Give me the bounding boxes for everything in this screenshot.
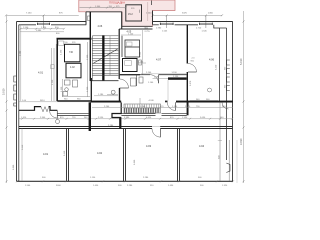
corridor dim line bbox=[92, 107, 233, 109]
svg-text:1.180: 1.180 bbox=[98, 94, 104, 96]
svg-text:3.030: 3.030 bbox=[239, 138, 243, 145]
svg-text:2.710: 2.710 bbox=[196, 28, 202, 30]
svg-text:2.550: 2.550 bbox=[98, 117, 104, 119]
bottom rooms top wall bbox=[19, 127, 233, 129]
pink block bottom walls bbox=[122, 25, 153, 27]
door at stair bottom right bbox=[120, 79, 129, 88]
svg-text:1.540: 1.540 bbox=[25, 185, 31, 187]
svg-text:900: 900 bbox=[225, 85, 227, 88]
svg-text:1.120: 1.120 bbox=[128, 33, 134, 35]
svg-text:2.280: 2.280 bbox=[143, 177, 149, 179]
window right 1 (x158.8-174.6) bbox=[160, 23, 173, 25]
svg-text:2.580: 2.580 bbox=[140, 51, 142, 57]
highlighted unit pink area bbox=[79, 0, 175, 26]
landing line bbox=[92, 74, 118, 76]
svg-text:5.880: 5.880 bbox=[36, 30, 42, 32]
elevator shaft right of stairs bbox=[123, 59, 138, 72]
wall right segment bbox=[165, 101, 168, 103]
svg-text:1.190: 1.190 bbox=[61, 86, 63, 92]
window left (x36-51) bbox=[38, 23, 50, 25]
fixtures below shaft bbox=[63, 80, 78, 96]
svg-text:4.03: 4.03 bbox=[146, 144, 152, 148]
inner right line 2 bbox=[226, 28, 228, 160]
bottom dim texts below line bbox=[25, 185, 228, 187]
stair left wall bbox=[89, 12, 91, 81]
left middle walls with door bbox=[19, 107, 57, 111]
svg-text:5.010: 5.010 bbox=[239, 58, 243, 65]
top wall right segment outer bbox=[153, 21, 233, 23]
door arc lower elevator wall bbox=[150, 75, 159, 84]
chain ticks bbox=[20, 28, 234, 120]
wall left segment bbox=[91, 101, 122, 103]
svg-text:1.130: 1.130 bbox=[41, 27, 47, 29]
wall room4.01 right bbox=[56, 39, 58, 101]
door arc right corridor bbox=[167, 102, 175, 110]
top wall left inner bbox=[19, 24, 36, 26]
room 4.06 under pink band bbox=[86, 12, 122, 29]
svg-text:2.280: 2.280 bbox=[127, 185, 133, 187]
top wall right inner bbox=[153, 24, 159, 26]
svg-text:4.06: 4.06 bbox=[209, 57, 215, 61]
inner right line 1 bbox=[219, 28, 221, 102]
svg-text:900: 900 bbox=[225, 67, 227, 70]
flight divide line bbox=[109, 36, 111, 75]
room 4.01 inner face line bbox=[20, 25, 22, 101]
building outer walls bbox=[17, 22, 234, 182]
svg-text:5.010: 5.010 bbox=[2, 88, 6, 95]
svg-text:4.04: 4.04 bbox=[199, 144, 205, 148]
svg-text:1.240: 1.240 bbox=[146, 13, 152, 15]
svg-text:5.050: 5.050 bbox=[200, 117, 206, 119]
svg-text:2.260: 2.260 bbox=[104, 106, 110, 108]
svg-text:4.610: 4.610 bbox=[146, 117, 152, 119]
interior wall chunk room 4.07 bbox=[153, 78, 169, 80]
svg-text:3.030: 3.030 bbox=[13, 164, 15, 170]
svg-text:ПЛОЩАДКА: ПЛОЩАДКА bbox=[109, 1, 125, 5]
svg-text:1.450: 1.450 bbox=[93, 185, 99, 187]
svg-text:1.980: 1.980 bbox=[156, 28, 162, 30]
svg-text:4.240: 4.240 bbox=[149, 100, 155, 102]
stair bottom bbox=[90, 80, 118, 82]
svg-text:2.280: 2.280 bbox=[154, 77, 160, 79]
pink unit right wall bbox=[152, 11, 154, 25]
bottom wall bbox=[17, 180, 234, 182]
svg-text:2.190: 2.190 bbox=[61, 49, 63, 55]
svg-text:2.340: 2.340 bbox=[40, 117, 46, 119]
svg-text:1.160: 1.160 bbox=[148, 82, 154, 84]
svg-text:2.390: 2.390 bbox=[87, 54, 89, 60]
svg-text:1.160: 1.160 bbox=[172, 106, 178, 108]
svg-text:2.070: 2.070 bbox=[190, 80, 192, 86]
svg-text:1.545: 1.545 bbox=[162, 30, 168, 32]
treads bbox=[92, 36, 118, 74]
svg-text:1.300: 1.300 bbox=[95, 6, 101, 8]
bottom dim ticks bbox=[16, 180, 234, 182]
bottom dim texts above line bbox=[42, 177, 202, 179]
svg-text:4.01: 4.01 bbox=[38, 71, 44, 75]
vertical wall x90.7 bbox=[90, 78, 92, 103]
wall vertical x187 below corridor bbox=[187, 102, 189, 115]
svg-text:1.320: 1.320 bbox=[222, 185, 228, 187]
door arc right end corridor bbox=[222, 103, 229, 110]
svg-text:1.430: 1.430 bbox=[168, 185, 174, 187]
left wall inner bbox=[18, 25, 20, 182]
svg-text:1.930: 1.930 bbox=[182, 117, 188, 119]
hatched band entrance steps bbox=[124, 98, 161, 113]
svg-text:15.2: 15.2 bbox=[128, 13, 133, 16]
svg-text:4.01: 4.01 bbox=[43, 152, 49, 156]
wc small room right of stairs bbox=[131, 77, 144, 86]
svg-text:2.070: 2.070 bbox=[185, 106, 191, 108]
core wall above shafts bbox=[57, 38, 92, 40]
small dim box bbox=[59, 41, 64, 46]
svg-text:3.380: 3.380 bbox=[124, 117, 130, 119]
svg-text:5.440: 5.440 bbox=[22, 144, 24, 150]
right side lower faint lines bbox=[219, 102, 221, 182]
corridor double wall segments bbox=[58, 114, 187, 116]
shaft box 2 bbox=[66, 63, 81, 78]
svg-text:1.190: 1.190 bbox=[87, 86, 89, 92]
svg-text:1.545: 1.545 bbox=[202, 30, 208, 32]
svg-text:3.030: 3.030 bbox=[134, 159, 136, 165]
svg-text:4.02: 4.02 bbox=[70, 66, 75, 69]
svg-text:2450: 2450 bbox=[208, 13, 214, 15]
wc block under 4.05 bbox=[122, 36, 140, 57]
dim line left middle bbox=[19, 101, 91, 103]
right wall bracket bottom bbox=[226, 163, 230, 173]
interior: room 4.01 dim chains bbox=[20, 29, 64, 32]
right wall notches bbox=[227, 60, 230, 91]
dim chain inside pink band bbox=[80, 7, 128, 9]
top wall left segment outer bbox=[17, 21, 87, 23]
door arc hall bbox=[49, 110, 57, 118]
svg-text:4.06: 4.06 bbox=[98, 25, 103, 28]
left core bottom wall bbox=[57, 100, 91, 102]
svg-text:1.190: 1.190 bbox=[173, 76, 179, 78]
svg-text:2.280: 2.280 bbox=[108, 125, 114, 127]
svg-text:5.440: 5.440 bbox=[64, 150, 66, 156]
svg-text:1.500: 1.500 bbox=[23, 27, 29, 29]
svg-text:2.715: 2.715 bbox=[145, 31, 151, 33]
svg-text:2.260: 2.260 bbox=[140, 106, 146, 108]
step jog at left of band bbox=[112, 103, 121, 118]
door arc bottom middle room bbox=[152, 129, 161, 138]
outer dimension lines bbox=[7, 11, 244, 183]
svg-text:5.440: 5.440 bbox=[216, 64, 218, 70]
pink unit: machine room box bbox=[126, 5, 142, 21]
svg-text:4.07: 4.07 bbox=[156, 57, 162, 61]
shaft box 1 bbox=[65, 44, 81, 62]
svg-text:1.500: 1.500 bbox=[20, 50, 22, 56]
right wall outer bbox=[232, 22, 234, 182]
bottom room labels bbox=[43, 144, 205, 156]
circle marker bbox=[208, 88, 212, 92]
central stringer bbox=[102, 35, 104, 80]
dim chain above bottom rooms bbox=[19, 118, 233, 120]
svg-text:1.150: 1.150 bbox=[90, 177, 96, 179]
svg-text:4.02: 4.02 bbox=[97, 151, 103, 155]
window right 2 (x198-213.8) bbox=[200, 23, 213, 25]
wall under elevator with door bbox=[119, 74, 187, 76]
stair right wall bbox=[118, 29, 120, 79]
inner step top right bbox=[214, 25, 227, 28]
svg-text:3470: 3470 bbox=[182, 13, 188, 15]
junction wall vertical right bbox=[119, 117, 121, 128]
dim texts top bbox=[26, 13, 214, 15]
stairwell bbox=[90, 12, 119, 81]
bottom room dividers bbox=[67, 129, 180, 182]
junction wall vertical left bbox=[89, 102, 91, 131]
circle marker left bbox=[111, 90, 115, 94]
door opening gap bbox=[152, 126, 160, 129]
wall divider 4.07/4.06 bbox=[186, 25, 188, 64]
svg-text:2.260: 2.260 bbox=[138, 61, 144, 63]
svg-text:2.190: 2.190 bbox=[52, 79, 54, 85]
up arrow diagonal bbox=[93, 49, 118, 64]
left wall notches bbox=[14, 76, 17, 106]
dimension ticks sides bbox=[6, 21, 245, 183]
svg-text:740: 740 bbox=[69, 51, 74, 54]
door swing left bbox=[41, 107, 49, 112]
door 4.06 bbox=[188, 64, 197, 73]
left wall outer bbox=[16, 22, 18, 182]
svg-text:7.160: 7.160 bbox=[26, 13, 32, 15]
dimension ticks top bbox=[5, 14, 223, 28]
